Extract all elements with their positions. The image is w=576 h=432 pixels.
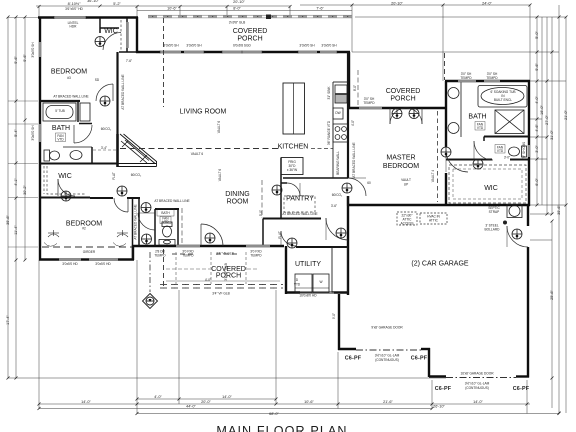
svg-text:26'-10": 26'-10"	[433, 405, 445, 409]
svg-text:AT BRACED WALL LINE: AT BRACED WALL LINE	[282, 212, 317, 216]
window utility south	[300, 291, 334, 294]
svg-text:68'-0": 68'-0"	[269, 412, 279, 416]
sliding glass door living	[222, 51, 262, 54]
master bed door	[348, 178, 366, 196]
kitchen east wall upper	[348, 52, 350, 109]
tick slashes bottom	[38, 398, 561, 416]
window center lines	[54, 16, 337, 54]
garage east wall	[527, 247, 529, 378]
svg-text:#3: #3	[67, 76, 71, 80]
bath1 sink	[70, 151, 82, 160]
bedroom3 south wall	[40, 100, 80, 102]
svg-text:VAULT 4: VAULT 4	[431, 170, 435, 183]
svg-text:3'0x5'0 SH: 3'0x5'0 SH	[186, 44, 202, 48]
soaker tub	[478, 86, 527, 108]
svg-text:8'-0": 8'-0"	[233, 7, 241, 11]
svg-text:3'-6": 3'-6"	[331, 204, 337, 208]
svg-text:3'0x5'0 SH: 3'0x5'0 SH	[163, 44, 179, 48]
svg-text:BEARING WALL: BEARING WALL	[336, 151, 340, 175]
svg-text:DINING: DINING	[225, 191, 250, 198]
svg-text:9'-6": 9'-6"	[535, 63, 539, 71]
svg-text:(CONTINUOUS): (CONTINUOUS)	[465, 386, 489, 390]
shower	[495, 110, 524, 134]
master bath door	[446, 150, 468, 172]
svg-text:27'-0": 27'-0"	[545, 115, 549, 125]
svg-text:WIC: WIC	[484, 185, 498, 192]
svg-text:11'-4": 11'-4"	[14, 225, 18, 235]
svg-text:14'-0": 14'-0"	[473, 400, 483, 404]
svg-text:14'-0": 14'-0"	[81, 400, 91, 404]
svg-text:5'-4": 5'-4"	[14, 129, 18, 137]
porch post top	[266, 15, 271, 20]
shelf column	[80, 103, 90, 121]
bedroom3 east wall / hall wall	[116, 52, 118, 134]
svg-text:BEDROOM: BEDROOM	[383, 163, 419, 170]
svg-text:20'-10": 20'-10"	[233, 0, 245, 4]
svg-text:AT BRACED WALL LINE: AT BRACED WALL LINE	[121, 74, 125, 109]
svg-text:17'-4": 17'-4"	[6, 315, 10, 325]
garage west wall	[347, 196, 349, 295]
master bath west wall	[445, 81, 447, 147]
svg-text:VAULT 6: VAULT 6	[191, 152, 204, 156]
south wall of master block / garage north	[348, 204, 530, 206]
porch east dashed edge	[444, 53, 446, 80]
svg-text:10'-6": 10'-6"	[167, 7, 177, 11]
window living north 2	[184, 51, 204, 54]
frig	[281, 158, 303, 175]
tick slashes top	[38, 4, 532, 9]
svg-text:BATH: BATH	[52, 125, 70, 132]
svg-text:44'-0": 44'-0"	[186, 405, 196, 409]
master bath sinks	[448, 88, 459, 99]
wic2 shelves	[47, 166, 86, 194]
pantry north wall	[281, 182, 287, 184]
svg-text:WIC: WIC	[58, 173, 72, 180]
garage front stub left	[338, 348, 356, 350]
svg-text:BUILT ENCL: BUILT ENCL	[494, 98, 512, 102]
master vault dashed	[437, 111, 439, 202]
bath1 toilet	[44, 150, 50, 161]
svg-text:16'0x8'0 HD: 16'0x8'0 HD	[299, 294, 317, 298]
svg-text:7'-6": 7'-6"	[316, 7, 324, 11]
sink double bowl	[335, 85, 347, 94]
toilet room door	[474, 141, 493, 160]
svg-text:KITCHEN: KITCHEN	[278, 144, 309, 151]
svg-text:6'-0": 6'-0"	[535, 178, 539, 186]
left exterior wall	[39, 17, 41, 261]
hall bath toilet	[162, 222, 172, 227]
svg-text:AT BRACED WALL LINE: AT BRACED WALL LINE	[53, 95, 88, 99]
svg-text:VTD: VTD	[497, 149, 504, 153]
svg-text:39'-6": 39'-6"	[557, 205, 561, 215]
DW	[333, 108, 343, 119]
ceiling light master bath door	[441, 147, 451, 157]
rear small door	[281, 231, 296, 246]
svg-text:TEMPD: TEMPD	[363, 101, 375, 105]
svg-text:3½"x10" GL-LAM: 3½"x10" GL-LAM	[465, 382, 490, 386]
svg-text:25'-8": 25'-8"	[550, 290, 554, 300]
svg-text:9'-6": 9'-6"	[23, 54, 27, 62]
svg-text:AT BRACED WALL LINE: AT BRACED WALL LINE	[154, 199, 189, 203]
svg-text:36" RANGE VTD: 36" RANGE VTD	[327, 120, 331, 145]
svg-text:3'0x5'0 SH: 3'0x5'0 SH	[299, 44, 315, 48]
garage front right stub	[516, 375, 529, 377]
french doors at master porch	[390, 108, 406, 124]
wic1 west wall	[99, 18, 101, 33]
range	[333, 124, 348, 142]
svg-text:TEMPD: TEMPD	[460, 76, 472, 80]
fireplace corner	[116, 134, 119, 167]
ceiling light bedroom2 hall	[142, 234, 152, 244]
svg-text:10'-6": 10'-6"	[304, 400, 314, 404]
left margin chains	[7, 17, 9, 378]
ceiling light rear entry	[287, 238, 297, 248]
svg-text:AT BRACED WALL LINE: AT BRACED WALL LINE	[352, 142, 356, 177]
svg-text:4'-0": 4'-0"	[205, 278, 211, 282]
right side extension horizontals	[355, 16, 566, 18]
svg-text:5' TUB: 5' TUB	[55, 109, 65, 113]
hall bath2 door	[138, 213, 155, 230]
hall bath2 walls	[155, 208, 179, 210]
svg-text:3'-0": 3'-0"	[504, 156, 510, 160]
wic1 south wall	[119, 51, 137, 53]
svg-text:ATTIC: ATTIC	[429, 219, 439, 223]
ceiling light hall bath2	[141, 203, 151, 213]
right margin chains	[536, 17, 538, 205]
utility inner wall	[296, 246, 348, 248]
svg-text:24'-0": 24'-0"	[482, 2, 492, 6]
svg-text:4'-0": 4'-0"	[154, 395, 162, 399]
bedroom3 door	[96, 84, 113, 101]
bedroom2 south wall	[39, 258, 134, 260]
svg-text:16'-0": 16'-0"	[540, 105, 544, 115]
svg-text:20'-10": 20'-10"	[391, 2, 403, 6]
window master porch	[359, 107, 382, 110]
svg-text:BOLLARD: BOLLARD	[485, 228, 501, 232]
svg-text:VTD: VTD	[294, 283, 301, 287]
svg-text:GIRDER: GIRDER	[83, 250, 96, 254]
bottom porch	[163, 249, 165, 288]
porch roof dash-dot top	[148, 14, 352, 16]
svg-text:W: W	[319, 280, 322, 284]
window leader curls bedroom2	[44, 230, 128, 246]
long reference line	[8, 377, 446, 379]
svg-text:4'-0": 4'-0"	[351, 120, 355, 126]
wic1 dashes	[120, 20, 122, 50]
window bedroom3 west	[39, 42, 42, 57]
tick slashes right margin	[536, 16, 568, 415]
kitchen counter east	[332, 82, 334, 178]
svg-text:COVERED: COVERED	[386, 88, 421, 95]
svg-text:3'x9'8" GLB: 3'x9'8" GLB	[229, 21, 246, 25]
svg-text:14'-0": 14'-0"	[222, 395, 232, 399]
svg-text:LIVING ROOM: LIVING ROOM	[180, 109, 227, 116]
svg-text:VAULT 6: VAULT 6	[218, 169, 222, 182]
window kitchen north 2	[320, 51, 337, 54]
svg-text:FLAT: FLAT	[278, 231, 282, 239]
svg-text:(2) CAR GARAGE: (2) CAR GARAGE	[411, 261, 469, 268]
ceiling light hall bath1	[100, 96, 110, 106]
left margin connectors	[8, 100, 38, 102]
svg-text:3'6"x5'0" HD: 3'6"x5'0" HD	[65, 7, 83, 11]
wic1 east wall	[126, 18, 128, 52]
svg-text:60: 60	[367, 181, 371, 185]
svg-text:5'-0": 5'-0"	[259, 210, 263, 216]
utility closet	[332, 247, 348, 292]
svg-text:BATH: BATH	[468, 114, 486, 121]
hall west wall	[138, 198, 140, 246]
svg-text:FLAT: FLAT	[112, 172, 116, 180]
svg-text:COVERED: COVERED	[233, 28, 268, 35]
step wall	[132, 245, 134, 260]
svg-text:8'-0": 8'-0"	[353, 85, 357, 91]
svg-text:STRAP: STRAP	[489, 210, 500, 214]
attic boxes	[397, 212, 417, 225]
svg-text:3'-0": 3'-0"	[535, 145, 539, 153]
svg-text:7'-6": 7'-6"	[126, 59, 132, 63]
ceiling light utility door	[336, 228, 346, 238]
dimension texts right	[535, 31, 568, 300]
kitchen east wall	[347, 52, 349, 178]
bedroom2 east wall	[132, 198, 134, 259]
svg-text:21'-0": 21'-0"	[564, 110, 568, 120]
3-4 dim dashed bath hall	[93, 149, 116, 151]
svg-text:60/CO₂: 60/CO₂	[332, 193, 343, 197]
south wall of hall	[132, 245, 284, 247]
wic1 door	[103, 33, 121, 51]
section cut dashes	[149, 252, 151, 292]
window hall south 2	[246, 245, 270, 248]
ceiling light master door	[342, 183, 352, 193]
living vault dashed	[120, 148, 282, 150]
svg-text:SD: SD	[95, 78, 100, 82]
svg-text:39'-8": 39'-8"	[6, 215, 10, 225]
svg-text:ACCESS: ACCESS	[400, 222, 413, 226]
svg-text:5'-0": 5'-0"	[535, 31, 539, 39]
svg-text:VAULT: VAULT	[401, 178, 411, 182]
ceiling light rear porch door	[205, 233, 215, 243]
garage front mid stub	[421, 348, 430, 350]
master bath north wall	[445, 80, 530, 82]
dimension texts bottom	[81, 395, 483, 416]
svg-text:UP: UP	[404, 183, 408, 187]
svg-text:C6-PF: C6-PF	[513, 386, 530, 392]
wic master north wall	[446, 159, 492, 161]
svg-text:TEMPD: TEMPD	[486, 76, 498, 80]
utility door	[326, 218, 348, 240]
master bath counter wall	[460, 81, 462, 137]
svg-text:UTILITY: UTILITY	[295, 261, 321, 268]
ceiling light WIC1	[95, 37, 105, 47]
east exterior wall	[528, 81, 530, 206]
svg-text:6'0x6'8 SGD: 6'0x6'8 SGD	[233, 44, 251, 48]
dimension texts top	[65, 0, 492, 11]
kitchen south wall	[283, 177, 348, 179]
svg-text:DW: DW	[335, 111, 340, 115]
svg-text:VTD: VTD	[57, 138, 64, 142]
window WIC1 east	[126, 22, 129, 48]
svg-text:36'-10": 36'-10"	[87, 0, 99, 3]
bath1 tub	[43, 103, 76, 121]
svg-text:9'x8' GARAGE DOOR: 9'x8' GARAGE DOOR	[371, 326, 403, 330]
ceiling light hall pantry	[272, 185, 282, 195]
garage doors	[356, 349, 421, 351]
svg-text:3'0" SH OBS: 3'0" SH OBS	[522, 142, 526, 160]
bottom rows	[137, 398, 276, 400]
window bedroom3 north	[54, 16, 86, 19]
master toilet	[509, 147, 520, 156]
porch left dashed edge	[163, 18, 165, 107]
bollard	[503, 221, 506, 224]
svg-text:TEMPD: TEMPD	[250, 254, 262, 258]
bedroom3 block top wall	[38, 16, 138, 18]
svg-text:3'0x5'0 HD: 3'0x5'0 HD	[62, 262, 78, 266]
wic master shelves	[449, 165, 526, 203]
svg-text:60/CO₂: 60/CO₂	[101, 127, 112, 131]
svg-text:MASTER: MASTER	[386, 155, 415, 162]
window bath1 west	[39, 124, 42, 142]
svg-text:4'-0": 4'-0"	[535, 96, 539, 104]
pantry door	[287, 183, 300, 196]
svg-text:WIC: WIC	[104, 28, 118, 35]
svg-text:C6-PF: C6-PF	[345, 356, 362, 362]
vertical extension lines below plan	[38, 260, 40, 409]
svg-text:31" SINK: 31" SINK	[327, 86, 331, 100]
svg-text:PANTRY: PANTRY	[286, 196, 314, 203]
ceiling light bedroom2 door	[117, 186, 127, 196]
svg-text:C6-PF: C6-PF	[435, 386, 452, 392]
svg-text:VTD: VTD	[477, 126, 484, 130]
svg-text:9'-0": 9'-0"	[332, 313, 336, 319]
svg-text:3'-4": 3'-4"	[101, 146, 107, 150]
svg-text:BEDROOM: BEDROOM	[51, 69, 87, 76]
dining dim line	[261, 180, 263, 218]
girder bedroom2	[42, 246, 132, 248]
tick slashes left margin	[7, 16, 27, 380]
bath mid wall	[484, 136, 529, 138]
svg-text:8'-10½": 8'-10½"	[68, 2, 81, 6]
window living north 1	[160, 51, 181, 54]
master north wall at porch	[348, 107, 447, 109]
utility washer dryer	[295, 274, 312, 293]
living room north wall	[136, 51, 350, 53]
window bedroom2 south 2	[89, 258, 118, 261]
svg-text:3'4" VF GLB: 3'4" VF GLB	[216, 252, 234, 256]
svg-text:3'0x5'0 HD: 3'0x5'0 HD	[95, 262, 111, 266]
svg-text:9'-6": 9'-6"	[14, 56, 18, 64]
window toilet room east	[528, 145, 531, 157]
utility south wall	[285, 291, 349, 293]
bedroom3 block east wall	[136, 17, 138, 53]
kitchen island	[283, 83, 305, 134]
svg-text:#2: #2	[82, 227, 86, 231]
svg-text:HDR: HDR	[70, 25, 78, 29]
top extension lines	[38, 7, 40, 18]
dimension texts left	[6, 42, 35, 325]
svg-text:VTD: VTD	[162, 220, 169, 224]
svg-text:MAIN FLOOR PLAN: MAIN FLOOR PLAN	[216, 424, 347, 432]
svg-text:3'0x5'0 SH: 3'0x5'0 SH	[31, 42, 35, 58]
svg-text:BATH: BATH	[161, 211, 170, 215]
ceiling light master toilet room	[473, 159, 483, 169]
window bedroom2 south 1	[59, 258, 81, 261]
ceiling light garage side door	[512, 229, 522, 239]
ceiling light WIC2	[61, 191, 71, 201]
garage west wall lower	[338, 294, 340, 350]
svg-text:16'x8' GARAGE DOOR: 16'x8' GARAGE DOOR	[460, 372, 494, 376]
svg-text:4'-1": 4'-1"	[14, 178, 18, 186]
window master bath north 2	[484, 80, 500, 83]
master south hall wall stub	[347, 196, 349, 206]
ceiling light french door R	[409, 109, 419, 119]
bath1 door	[74, 125, 92, 143]
ceiling light french door L	[392, 109, 402, 119]
svg-text:(CONTINUOUS): (CONTINUOUS)	[375, 358, 399, 362]
svg-text:PORCH: PORCH	[237, 36, 262, 43]
tub east wall	[77, 101, 79, 122]
window hall south 1	[176, 245, 200, 248]
svg-text:TEMPD: TEMPD	[182, 254, 194, 258]
wic1 shelf wall	[100, 27, 119, 29]
svg-text:21'-6": 21'-6"	[383, 400, 393, 404]
svg-text:30'-2": 30'-2"	[23, 185, 27, 195]
svg-text:ROOM: ROOM	[227, 199, 249, 206]
svg-text:PORCH: PORCH	[216, 273, 241, 280]
svg-text:3'0x5'0 SH: 3'0x5'0 SH	[321, 44, 337, 48]
utility west wall	[285, 246, 287, 294]
hall south wall	[263, 218, 321, 220]
svg-text:31'-0": 31'-0"	[550, 130, 554, 140]
svg-text:3'4" VF GLB: 3'4" VF GLB	[212, 292, 230, 296]
section diamond marker	[143, 294, 158, 309]
sink counter bath1	[63, 146, 92, 148]
hall-porch door	[201, 224, 223, 246]
svg-text:C6-PF: C6-PF	[411, 356, 428, 362]
svg-text:TEMPD: TEMPD	[154, 254, 166, 258]
svg-text:x 36"W: x 36"W	[287, 168, 297, 172]
svg-text:AT BRACED WALL LINE: AT BRACED WALL LINE	[134, 204, 138, 239]
pantry west wall	[280, 158, 282, 218]
garage side door	[507, 226, 528, 247]
svg-text:4'-6": 4'-6"	[535, 124, 539, 132]
wic2 south wall	[40, 197, 90, 199]
svg-text:PORCH: PORCH	[390, 96, 415, 103]
svg-text:3'0x5'0 SH: 3'0x5'0 SH	[31, 125, 35, 141]
window kitchen north 1	[298, 51, 317, 54]
bedroom2 north wall	[90, 197, 113, 199]
bath south wall	[40, 163, 117, 165]
pantry shelves	[284, 196, 315, 212]
svg-text:VAULT 6: VAULT 6	[217, 121, 221, 134]
window master bath north 1	[458, 80, 476, 83]
svg-text:3½"x10" GL-LAM: 3½"x10" GL-LAM	[375, 354, 400, 358]
svg-text:60/CO₂: 60/CO₂	[131, 173, 142, 177]
wic2 door	[58, 179, 75, 196]
svg-text:20'-0": 20'-0"	[201, 400, 211, 404]
porch dim line	[357, 70, 359, 106]
svg-text:5'-2": 5'-2"	[113, 2, 121, 6]
svg-text:3'4" VF GLB: 3'4" VF GLB	[224, 263, 228, 281]
water heater	[507, 205, 522, 218]
bedroom2 door	[114, 198, 128, 212]
top row chain	[36, 5, 290, 7]
